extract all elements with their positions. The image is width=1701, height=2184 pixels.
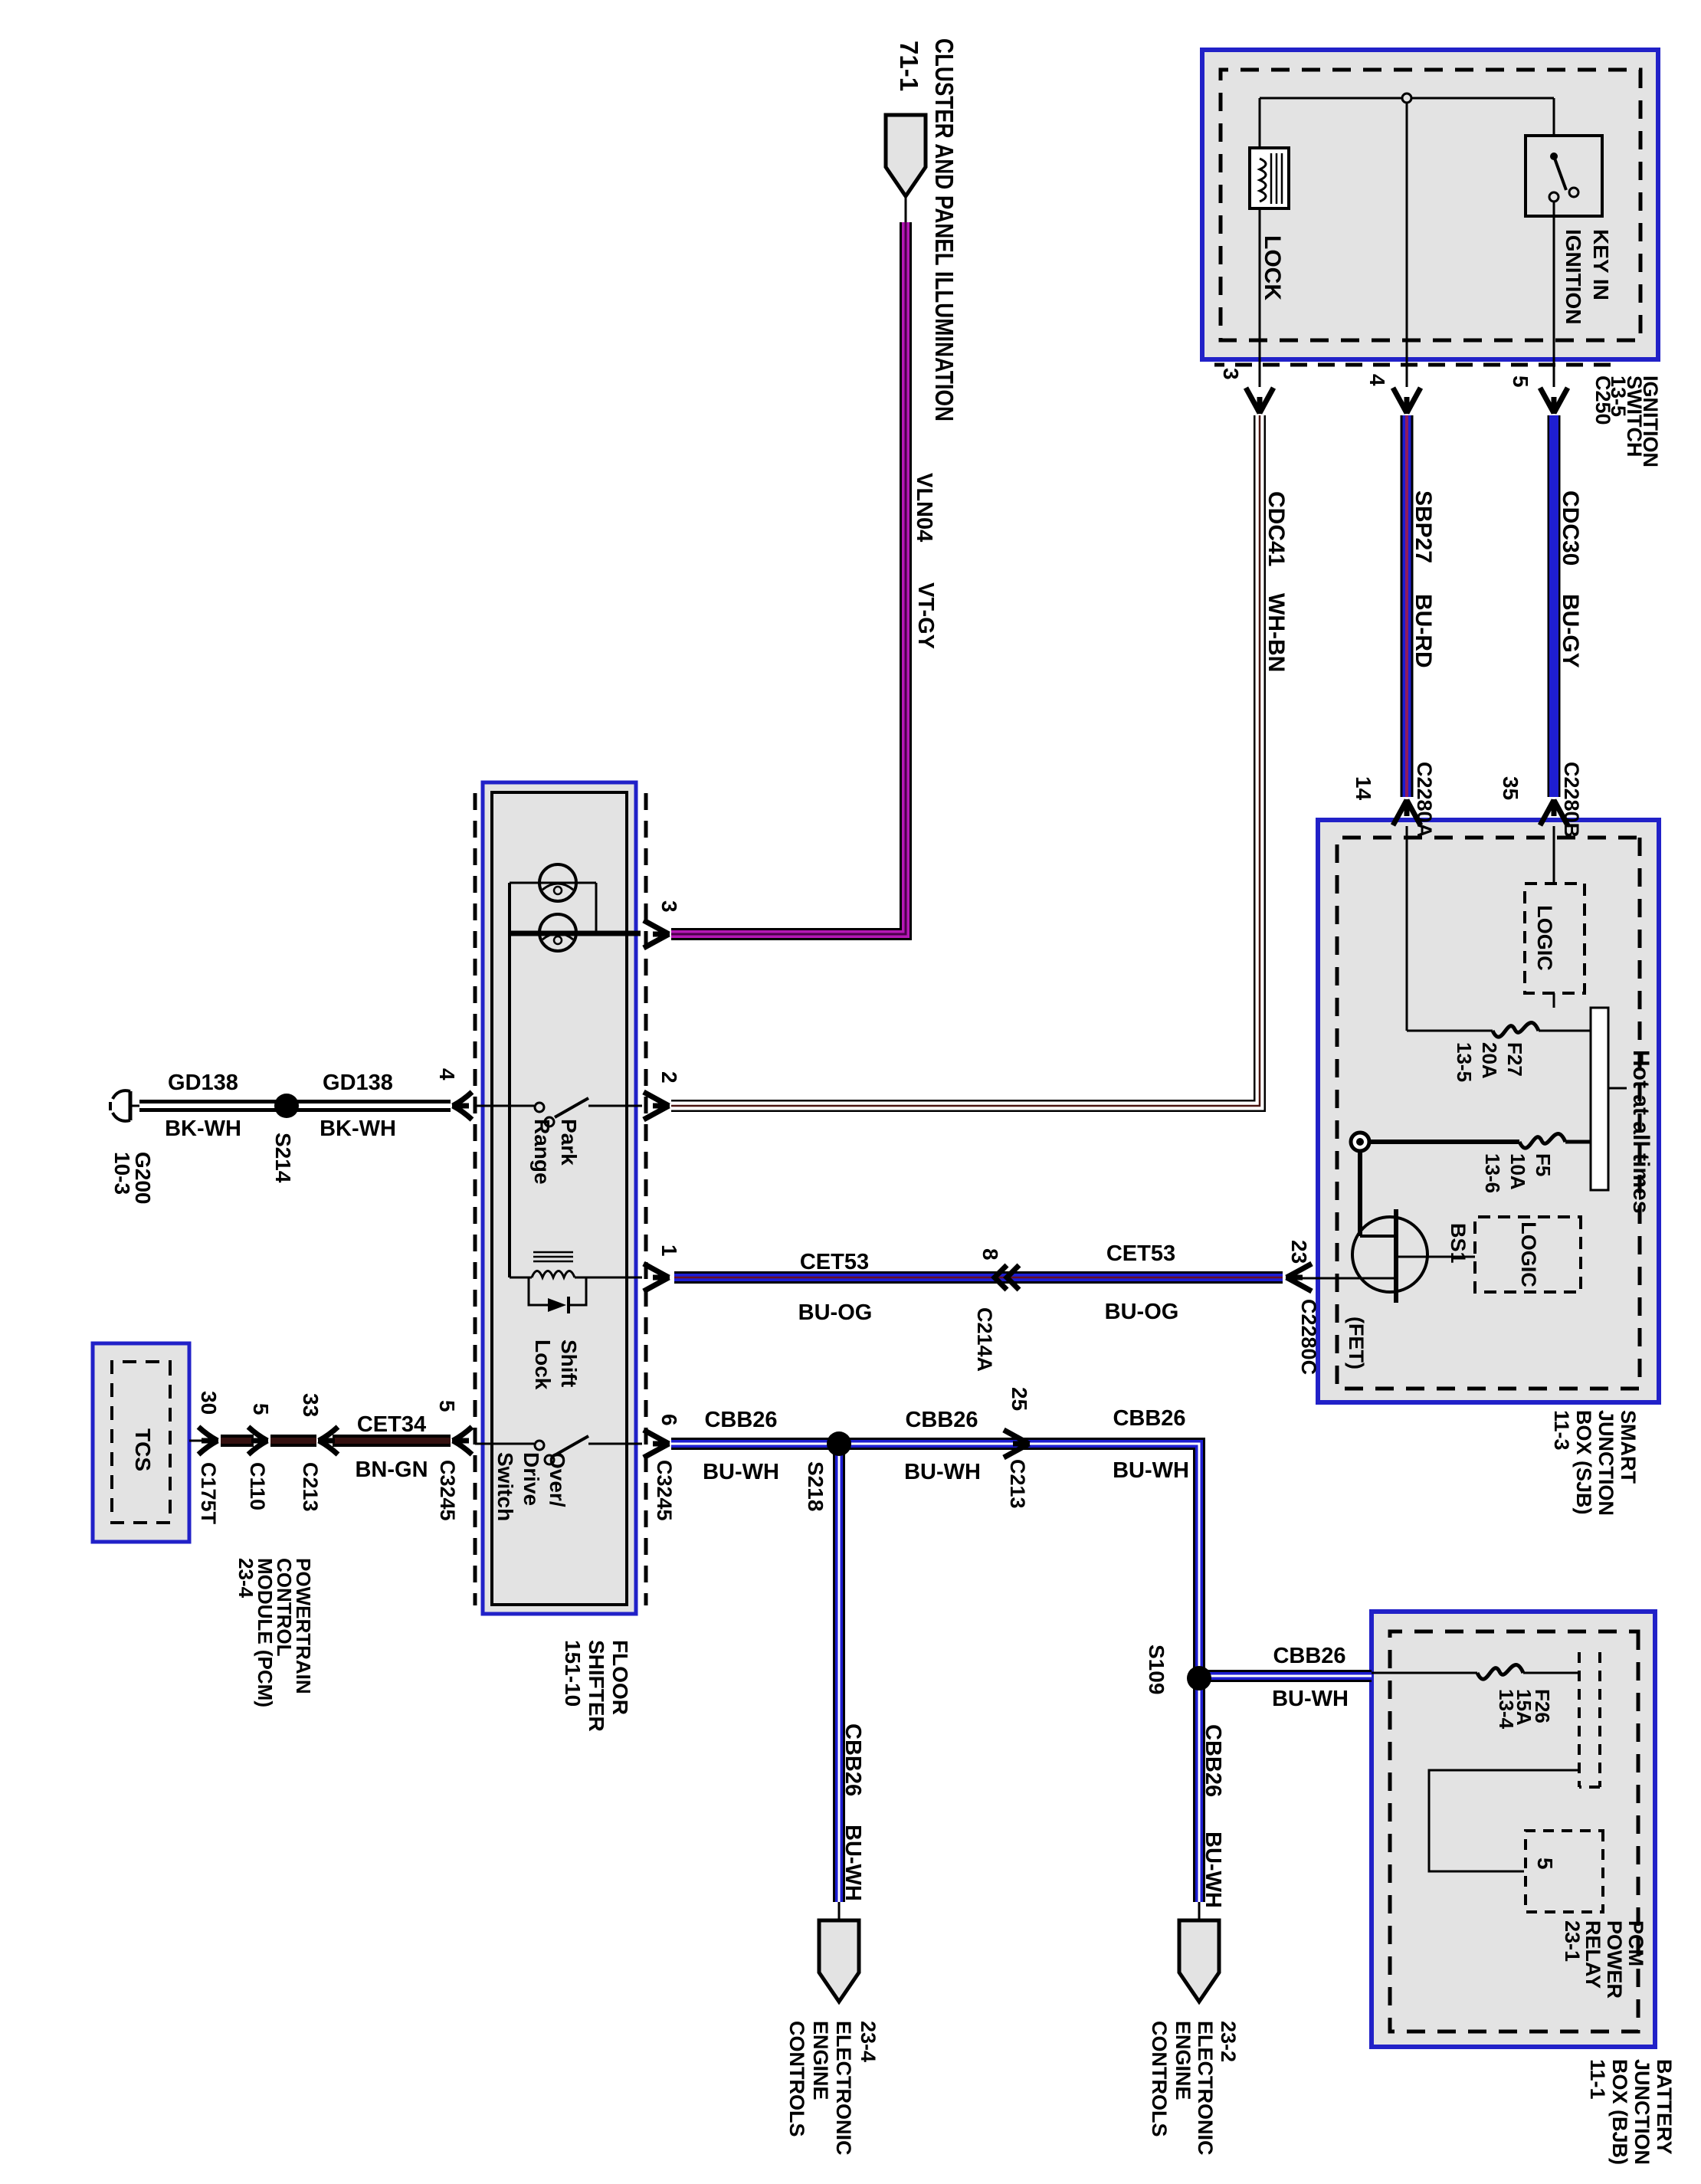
svg-text:5: 5 — [435, 1400, 459, 1412]
svg-text:S109: S109 — [1145, 1645, 1168, 1694]
svg-text:10-3: 10-3 — [110, 1152, 134, 1195]
svg-text:CDC41: CDC41 — [1263, 491, 1289, 566]
svg-text:G200: G200 — [131, 1152, 155, 1205]
svg-text:F5: F5 — [1532, 1153, 1555, 1176]
svg-text:BOX (SJB): BOX (SJB) — [1572, 1410, 1595, 1515]
svg-text:CET53: CET53 — [800, 1250, 869, 1274]
svg-text:BU-RD: BU-RD — [1411, 594, 1436, 668]
svg-text:LOGIC: LOGIC — [1533, 905, 1556, 971]
svg-text:23-1: 23-1 — [1561, 1920, 1584, 1962]
svg-text:BOX (BJB): BOX (BJB) — [1608, 2059, 1631, 2165]
svg-text:Hot at all times: Hot at all times — [1628, 1050, 1653, 1213]
svg-text:RELAY: RELAY — [1581, 1920, 1604, 1989]
svg-text:ENGINE: ENGINE — [809, 2021, 832, 2100]
svg-text:BU-WH: BU-WH — [1272, 1687, 1349, 1711]
svg-text:C213: C213 — [1006, 1459, 1029, 1509]
svg-text:23: 23 — [1287, 1240, 1311, 1264]
svg-text:IGNITION: IGNITION — [1562, 229, 1585, 324]
svg-text:C213: C213 — [299, 1462, 322, 1512]
svg-text:23-4: 23-4 — [234, 1558, 257, 1599]
svg-text:CBB26: CBB26 — [1201, 1724, 1225, 1797]
svg-text:33: 33 — [299, 1393, 323, 1417]
svg-text:BU-GY: BU-GY — [1558, 594, 1583, 668]
svg-text:C214A: C214A — [973, 1307, 996, 1372]
svg-text:LOCK: LOCK — [1260, 235, 1285, 300]
svg-text:13-5: 13-5 — [1453, 1042, 1476, 1082]
svg-text:8: 8 — [978, 1248, 1002, 1261]
svg-text:13-6: 13-6 — [1481, 1153, 1504, 1193]
svg-text:151-10: 151-10 — [561, 1640, 585, 1707]
svg-text:C175T: C175T — [197, 1462, 220, 1525]
svg-text:23-4: 23-4 — [857, 2021, 880, 2062]
svg-text:Range: Range — [530, 1119, 554, 1185]
svg-text:GD138: GD138 — [323, 1071, 393, 1095]
svg-text:Lock: Lock — [531, 1340, 555, 1390]
svg-text:11-3: 11-3 — [1550, 1410, 1573, 1451]
svg-text:2: 2 — [657, 1071, 681, 1084]
svg-text:BATTERY: BATTERY — [1653, 2059, 1676, 2155]
svg-text:BU-WH: BU-WH — [904, 1460, 981, 1484]
svg-text:CBB26: CBB26 — [704, 1408, 777, 1432]
svg-text:BU-WH: BU-WH — [703, 1460, 779, 1484]
svg-text:ELECTRONIC: ELECTRONIC — [1194, 2021, 1217, 2156]
svg-text:CBB26: CBB26 — [905, 1408, 978, 1432]
svg-text:4: 4 — [1365, 374, 1389, 386]
svg-text:C3245: C3245 — [653, 1460, 676, 1521]
svg-text:25: 25 — [1008, 1387, 1031, 1411]
svg-text:C2280C: C2280C — [1297, 1299, 1320, 1375]
svg-text:BU-OG: BU-OG — [1105, 1300, 1179, 1324]
svg-text:FLOOR: FLOOR — [608, 1640, 632, 1715]
svg-text:30: 30 — [197, 1391, 221, 1415]
svg-text:CET53: CET53 — [1106, 1241, 1175, 1266]
svg-text:C110: C110 — [246, 1462, 269, 1510]
svg-text:5: 5 — [1533, 1858, 1557, 1870]
svg-text:14: 14 — [1352, 776, 1375, 801]
svg-text:23-2: 23-2 — [1217, 2021, 1240, 2062]
svg-text:KEY IN: KEY IN — [1589, 229, 1613, 300]
svg-text:JUNCTION: JUNCTION — [1594, 1410, 1617, 1516]
svg-text:BU-WH: BU-WH — [1113, 1458, 1189, 1483]
svg-text:SHIFTER: SHIFTER — [585, 1640, 608, 1732]
svg-text:35: 35 — [1499, 776, 1522, 800]
svg-text:6: 6 — [657, 1414, 681, 1426]
svg-text:1: 1 — [657, 1244, 681, 1257]
svg-text:11-1: 11-1 — [1586, 2059, 1609, 2100]
svg-text:BS1: BS1 — [1447, 1223, 1470, 1264]
svg-text:CBB26: CBB26 — [841, 1723, 865, 1796]
svg-text:C2280B: C2280B — [1560, 762, 1583, 838]
svg-text:S214: S214 — [271, 1133, 295, 1183]
svg-text:LOGIC: LOGIC — [1517, 1222, 1540, 1287]
svg-text:20A: 20A — [1478, 1042, 1501, 1079]
svg-text:Park: Park — [557, 1119, 581, 1166]
svg-text:C250: C250 — [1591, 375, 1614, 425]
svg-text:CDC30: CDC30 — [1558, 490, 1583, 566]
svg-text:POWER: POWER — [1603, 1920, 1626, 1999]
svg-text:BU-WH: BU-WH — [1201, 1831, 1225, 1908]
svg-text:CONTROLS: CONTROLS — [1148, 2021, 1171, 2137]
svg-text:PCM: PCM — [1624, 1920, 1647, 1966]
svg-text:WH-BN: WH-BN — [1263, 593, 1289, 672]
svg-text:C2280A: C2280A — [1413, 762, 1436, 838]
svg-text:JUNCTION: JUNCTION — [1631, 2059, 1653, 2165]
svg-text:CLUSTER AND PANEL ILLUMINATION: CLUSTER AND PANEL ILLUMINATION — [930, 38, 959, 421]
svg-text:Over/: Over/ — [546, 1452, 569, 1507]
svg-text:3: 3 — [1219, 368, 1243, 380]
svg-text:5: 5 — [1509, 375, 1532, 388]
svg-text:F27: F27 — [1503, 1042, 1526, 1077]
svg-text:CET34: CET34 — [357, 1412, 426, 1437]
svg-text:10A: 10A — [1506, 1153, 1529, 1190]
svg-text:SBP27: SBP27 — [1411, 490, 1436, 563]
svg-text:4: 4 — [435, 1068, 459, 1081]
svg-text:(FET): (FET) — [1345, 1317, 1368, 1369]
svg-text:3: 3 — [657, 900, 681, 913]
svg-text:Switch: Switch — [493, 1452, 517, 1521]
svg-text:C3245: C3245 — [436, 1460, 459, 1521]
svg-text:Drive: Drive — [519, 1452, 543, 1506]
svg-text:BN-GN: BN-GN — [355, 1458, 428, 1482]
svg-text:5: 5 — [249, 1403, 273, 1415]
svg-text:71-1: 71-1 — [895, 41, 923, 91]
svg-text:TCS: TCS — [131, 1428, 155, 1471]
svg-text:S218: S218 — [804, 1461, 828, 1511]
svg-text:13-4: 13-4 — [1495, 1689, 1518, 1730]
svg-text:BK-WH: BK-WH — [165, 1117, 241, 1141]
svg-text:BU-WH: BU-WH — [841, 1825, 865, 1901]
svg-text:SMART: SMART — [1617, 1410, 1640, 1484]
svg-text:CBB26: CBB26 — [1273, 1644, 1345, 1668]
svg-text:BU-OG: BU-OG — [798, 1300, 873, 1325]
svg-text:ENGINE: ENGINE — [1172, 2021, 1195, 2100]
svg-text:CONTROLS: CONTROLS — [785, 2021, 808, 2137]
svg-text:CBB26: CBB26 — [1113, 1406, 1185, 1431]
svg-text:BK-WH: BK-WH — [320, 1117, 396, 1141]
svg-text:Shift: Shift — [557, 1340, 581, 1387]
svg-text:GD138: GD138 — [168, 1071, 238, 1095]
svg-text:ELECTRONIC: ELECTRONIC — [832, 2021, 855, 2156]
svg-text:VLN04: VLN04 — [912, 473, 936, 542]
svg-text:VT-GY: VT-GY — [913, 582, 938, 649]
